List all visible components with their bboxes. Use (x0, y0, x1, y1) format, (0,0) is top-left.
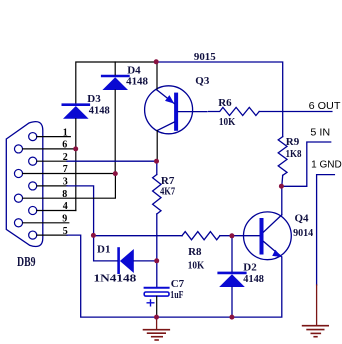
wire R9 bottom lead to junction (281, 175, 284, 186)
DB9 pin circles (14, 133, 36, 240)
resistor R8 (182, 232, 220, 240)
svg-text:R9: R9 (286, 136, 300, 148)
svg-text:D1: D1 (97, 243, 110, 255)
wire pin3 net down to R8 node (67, 186, 94, 236)
svg-text:1K8: 1K8 (286, 148, 302, 160)
svg-text:10K: 10K (188, 260, 205, 272)
wire R8 to Q4 base (220, 235, 260, 237)
wire D4 bottom lead down to pin7 net (114, 90, 116, 174)
transistor Q3 emitter diagonal (157, 90, 174, 104)
pin 6 line to D3 junction (23, 148, 76, 150)
svg-text:Q4: Q4 (295, 212, 310, 224)
junction pin6/D3 (73, 146, 78, 151)
junction on 9015 rail at Q3 emitter (154, 59, 159, 64)
junction pin7/D4 (113, 171, 118, 176)
svg-text:R8: R8 (188, 246, 202, 258)
junction D1 anode/R7/C7 node (154, 258, 159, 263)
svg-text:8: 8 (62, 189, 67, 200)
junction ground rail/C7 (154, 315, 159, 320)
svg-text:1: 1 (63, 127, 68, 138)
resistor R7 (153, 175, 161, 215)
transistor Q4 base bar (260, 220, 264, 253)
svg-text:D2: D2 (243, 261, 257, 273)
svg-text:D4: D4 (127, 64, 141, 76)
svg-text:3: 3 (63, 177, 68, 188)
svg-text:9014: 9014 (293, 227, 314, 239)
svg-text:DB9: DB9 (17, 255, 36, 270)
junction R8/Q4 base/D2 (229, 233, 234, 238)
wire D4 top lead (114, 62, 116, 75)
wire 9015 rail right segment to top-right corner down to R9 (156, 62, 283, 137)
transistor Q4 circle (244, 212, 292, 260)
svg-text:6: 6 (62, 140, 67, 151)
pin 8 line up to pin7 net (23, 174, 116, 199)
wire Q4 collector lead up to R9 junction (281, 186, 283, 215)
svg-text:R6: R6 (218, 97, 232, 109)
transistor Q3 collector diagonal (157, 122, 174, 131)
pin 4 line joining D3 vertical (37, 210, 76, 212)
capacitor C7 top plate (145, 287, 169, 289)
wire Q3 base lead to R6 (178, 111, 207, 113)
svg-text:4148: 4148 (126, 76, 148, 88)
junction R9/Q4 collector/5IN (279, 184, 284, 189)
diode D3 body (63, 105, 89, 119)
diode D2 body (219, 273, 246, 287)
wire 5 IN net L-shape (282, 142, 331, 186)
junction pin2/Q3 collector/R7 (154, 159, 159, 164)
wire D1 anode to R7/C7 node (134, 260, 157, 262)
wire 6 OUT net from R6 to right edge (259, 111, 332, 113)
wire R7 bottom lead down to D1 node and C7 (156, 214, 158, 287)
wire C7 bottom lead to ground rail (156, 296, 158, 317)
wire 1 GND net (317, 175, 335, 285)
svg-text:7: 7 (63, 164, 68, 175)
DB9 connector outline (6, 122, 43, 247)
capacitor C7 plus sign (147, 300, 154, 306)
junction TXD/R8/D1 (91, 233, 96, 238)
svg-text:5 IN: 5 IN (310, 127, 330, 138)
transistor Q3 emitter arrow (PNP) (165, 95, 174, 104)
pin 9 line (23, 222, 69, 224)
wire D3 bottom lead down through pin6 junction to pin4 line (75, 119, 77, 211)
svg-text:2: 2 (63, 152, 68, 163)
diode D4 body (102, 76, 128, 90)
svg-text:4K7: 4K7 (160, 186, 175, 198)
junction ground rail/D2 (229, 315, 234, 320)
wire TXD node to R8 (94, 235, 182, 237)
svg-text:4148: 4148 (89, 105, 110, 117)
svg-text:D3: D3 (87, 93, 101, 105)
resistor R7 top lead from pin2 junction (156, 161, 158, 174)
wire D1 cathode L to TXD node (94, 236, 118, 261)
resistor R6 (209, 107, 260, 115)
svg-text:4: 4 (63, 201, 68, 212)
transistor Q3 base bar (174, 95, 178, 129)
transistor Q4 emitter arrow (NPN) (272, 250, 281, 257)
transistor Q4 collector diagonal (264, 215, 282, 232)
pin 3 stub (37, 185, 67, 187)
resistor R9 (278, 137, 287, 176)
svg-text:4148: 4148 (243, 273, 264, 285)
pin 7 line to D4 junction (23, 173, 116, 175)
ground symbol middle (144, 317, 170, 340)
wire Q3 collector lead down to pin2 node (156, 131, 158, 162)
wire pin2 net to Q3 collector (67, 160, 157, 162)
svg-text:Q3: Q3 (195, 75, 210, 87)
svg-text:9015: 9015 (194, 51, 216, 63)
svg-text:9: 9 (62, 214, 67, 225)
transistor Q3 emitter top lead (156, 62, 158, 90)
diode D1 body (119, 249, 134, 274)
svg-text:1N4148: 1N4148 (94, 273, 137, 285)
svg-text:1 GND: 1 GND (311, 159, 342, 170)
wire pin5 ground run down and along bottom to Q4 emitter (67, 235, 282, 317)
svg-text:1uF: 1uF (170, 289, 183, 301)
svg-text:10K: 10K (219, 116, 236, 128)
wire 9015 rail left segment with corner down to D3 (76, 62, 156, 105)
pin 5 line (37, 234, 67, 236)
pin 2 stub (37, 160, 67, 162)
svg-text:6 OUT: 6 OUT (309, 101, 341, 112)
wire D2 top lead from Q4 base node (231, 236, 233, 272)
transistor Q4 emitter diagonal (264, 242, 282, 257)
wire D2 bottom lead to ground rail (231, 287, 233, 317)
capacitor C7 bottom plate box (144, 292, 169, 296)
pin 1 line (37, 136, 71, 138)
ground symbol right (303, 285, 329, 337)
transistor Q3 circle (145, 86, 193, 134)
